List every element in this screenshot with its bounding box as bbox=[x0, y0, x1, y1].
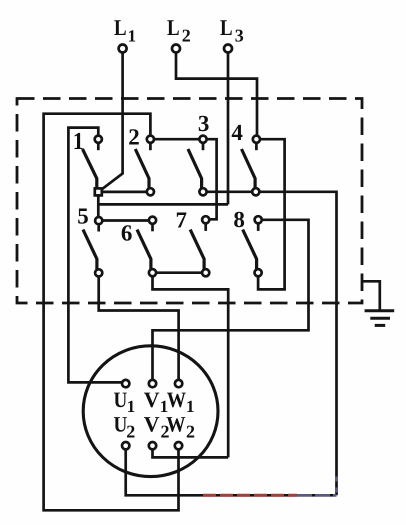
switch 4 bbox=[242, 136, 261, 196]
label W2 bbox=[166, 411, 195, 441]
motor terminal W2 bbox=[175, 442, 182, 449]
wire V2 W2 junction row bbox=[153, 449, 229, 457]
wire switch5-bottom to W1 bbox=[99, 276, 179, 380]
wire switch2-top up to far-left rail down to W2 bbox=[44, 114, 179, 511]
wire switch2-top to switch3-top bbox=[154, 138, 199, 141]
switch 7 bbox=[190, 216, 209, 276]
terminal L2 bbox=[172, 45, 180, 53]
blue tinted wire segment on U2 rail bbox=[297, 494, 337, 497]
svg-text:2: 2 bbox=[182, 26, 191, 46]
ground wire stub from box right edge bbox=[362, 281, 380, 310]
svg-text:7: 7 bbox=[176, 207, 188, 232]
svg-text:V: V bbox=[144, 387, 160, 412]
svg-text:8: 8 bbox=[233, 207, 245, 232]
svg-text:2: 2 bbox=[128, 125, 140, 150]
label U2 bbox=[114, 411, 136, 441]
switch 2 bbox=[135, 136, 154, 196]
switch 3 bbox=[188, 136, 207, 196]
wire switch1-top up-left down to U1 bbox=[68, 128, 122, 383]
motor terminal U1 bbox=[122, 380, 129, 387]
svg-text:6: 6 bbox=[121, 220, 132, 245]
motor M1 body circle bbox=[83, 346, 218, 477]
switch 8 bbox=[243, 216, 262, 276]
svg-text:V: V bbox=[144, 411, 160, 436]
wire switch1-bottom to switch2-bottom bbox=[102, 191, 147, 194]
wire switch6-bottom to switch7-bottom bbox=[156, 271, 202, 274]
wire U2 down and right to right rail bbox=[126, 449, 337, 495]
svg-text:1: 1 bbox=[127, 397, 136, 416]
motor terminal V1 bbox=[149, 380, 156, 387]
svg-text:5: 5 bbox=[77, 204, 89, 229]
svg-text:W: W bbox=[167, 387, 186, 412]
wire node row: switch1 bottom node to L3 drop bbox=[98, 203, 228, 206]
svg-text:L: L bbox=[114, 15, 127, 40]
wire L1 down to switch 1 bottom node bbox=[101, 53, 123, 191]
switch 5 bbox=[83, 217, 102, 277]
wire switch5-top to switch6-top bbox=[102, 219, 149, 222]
wire L3 down to node row bbox=[227, 53, 230, 205]
blue tinted segment on right rail bottom bbox=[335, 477, 338, 495]
svg-text:2: 2 bbox=[186, 422, 195, 442]
switch 1 bbox=[83, 136, 102, 196]
svg-text:2: 2 bbox=[126, 422, 135, 442]
label V2 bbox=[144, 411, 170, 441]
svg-text:4: 4 bbox=[231, 120, 243, 145]
svg-text:1: 1 bbox=[128, 27, 137, 46]
terminal L3 bbox=[224, 45, 232, 53]
terminal L2 label bbox=[167, 15, 191, 45]
svg-text:1: 1 bbox=[186, 397, 195, 416]
svg-text:L: L bbox=[220, 15, 233, 40]
label V1 bbox=[144, 387, 169, 416]
svg-text:L: L bbox=[167, 15, 180, 40]
motor terminal W1 bbox=[175, 380, 182, 387]
svg-text:3: 3 bbox=[198, 111, 210, 136]
svg-text:W: W bbox=[166, 411, 185, 436]
wire L2 to switch 4 top bbox=[176, 53, 257, 136]
svg-text:U: U bbox=[114, 387, 128, 412]
wire switch8-top to V1 bbox=[153, 220, 309, 380]
wire switch1-bottom down to switch5-top bbox=[97, 196, 100, 217]
dashed enclosure box bbox=[17, 99, 362, 304]
red tinted wire segment on U2 rail bbox=[203, 494, 297, 497]
motor terminal U2 bbox=[122, 442, 129, 449]
label W1 bbox=[167, 387, 195, 416]
terminal L1 bbox=[119, 45, 127, 53]
terminal L1 label bbox=[114, 15, 136, 45]
switch 6 bbox=[137, 217, 156, 277]
svg-text:U: U bbox=[114, 411, 128, 436]
wire switch3-top to switch7-top bbox=[207, 139, 217, 219]
terminal L3 label bbox=[220, 15, 244, 45]
motor terminal V2 bbox=[149, 442, 156, 449]
ground symbol bbox=[365, 311, 395, 326]
wire switch4-top to switch8-bottom bbox=[258, 139, 285, 289]
svg-text:3: 3 bbox=[235, 26, 244, 46]
wire switch6-bottom to V2 W2 row bbox=[153, 276, 229, 457]
label U1 bbox=[114, 387, 136, 416]
wire switch3-bottom through switch4-bottom to right rail down bbox=[207, 192, 337, 496]
